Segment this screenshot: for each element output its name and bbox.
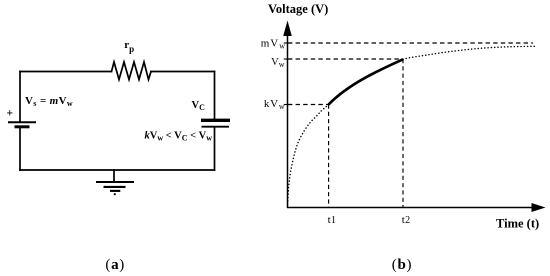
capacitor C bottom plate (thin) xyxy=(202,126,230,128)
resistor rp zigzag xyxy=(112,62,152,80)
ground dot xyxy=(114,193,116,195)
wire bottom xyxy=(20,169,215,171)
dashed vertical line t1 xyxy=(328,105,330,208)
wire left upper (to battery) xyxy=(19,72,21,122)
y-axis xyxy=(287,33,289,208)
svg-text:(b): (b) xyxy=(392,257,412,273)
wire right lower (capacitor to bottom) xyxy=(214,128,216,171)
svg-text:kVw < VC < Vw: kVw < VC < Vw xyxy=(145,130,213,142)
battery V1 top plate (long) xyxy=(8,121,36,123)
dashed vertical line t2 xyxy=(402,59,404,207)
wire left lower (battery to bottom) xyxy=(19,128,21,170)
svg-text:Vs = mVw: Vs = mVw xyxy=(25,95,73,108)
tick Vw xyxy=(284,58,292,60)
svg-text:mVw: mVw xyxy=(261,38,286,51)
dotted curve tail (t2 to right) xyxy=(403,46,536,59)
svg-text:t2: t2 xyxy=(402,214,410,226)
wire top-right segment xyxy=(151,71,215,73)
wire right upper (to capacitor) xyxy=(214,72,216,120)
svg-text:VC: VC xyxy=(192,100,206,112)
svg-text:(a): (a) xyxy=(105,257,125,273)
svg-text:Vw: Vw xyxy=(271,57,285,69)
ground stub xyxy=(113,170,115,182)
bold curve segment (t1 to t2) xyxy=(329,59,403,104)
svg-text:+: + xyxy=(7,107,14,119)
wire top-left segment and resistor lead xyxy=(20,71,112,73)
svg-text:Time (t): Time (t) xyxy=(496,217,539,231)
tick mVw xyxy=(284,42,292,44)
svg-text:t1: t1 xyxy=(328,214,336,226)
svg-text:kVw: kVw xyxy=(264,98,286,111)
battery V1 bottom plate (short thick) xyxy=(15,125,30,128)
dashed level line mVw xyxy=(288,42,533,44)
svg-text:rp: rp xyxy=(124,39,134,54)
svg-text:Voltage (V): Voltage (V) xyxy=(268,2,328,16)
dashed level line kVw xyxy=(288,104,329,106)
ground xyxy=(96,182,134,191)
x-axis xyxy=(288,207,534,209)
y-axis arrowhead xyxy=(283,21,292,37)
dashed level line Vw xyxy=(288,58,403,60)
x-axis arrowhead xyxy=(532,203,546,212)
tick kVw xyxy=(284,104,292,106)
dotted charging curve (origin to t1) xyxy=(288,105,329,208)
capacitor C top plate (thick) xyxy=(201,119,230,122)
